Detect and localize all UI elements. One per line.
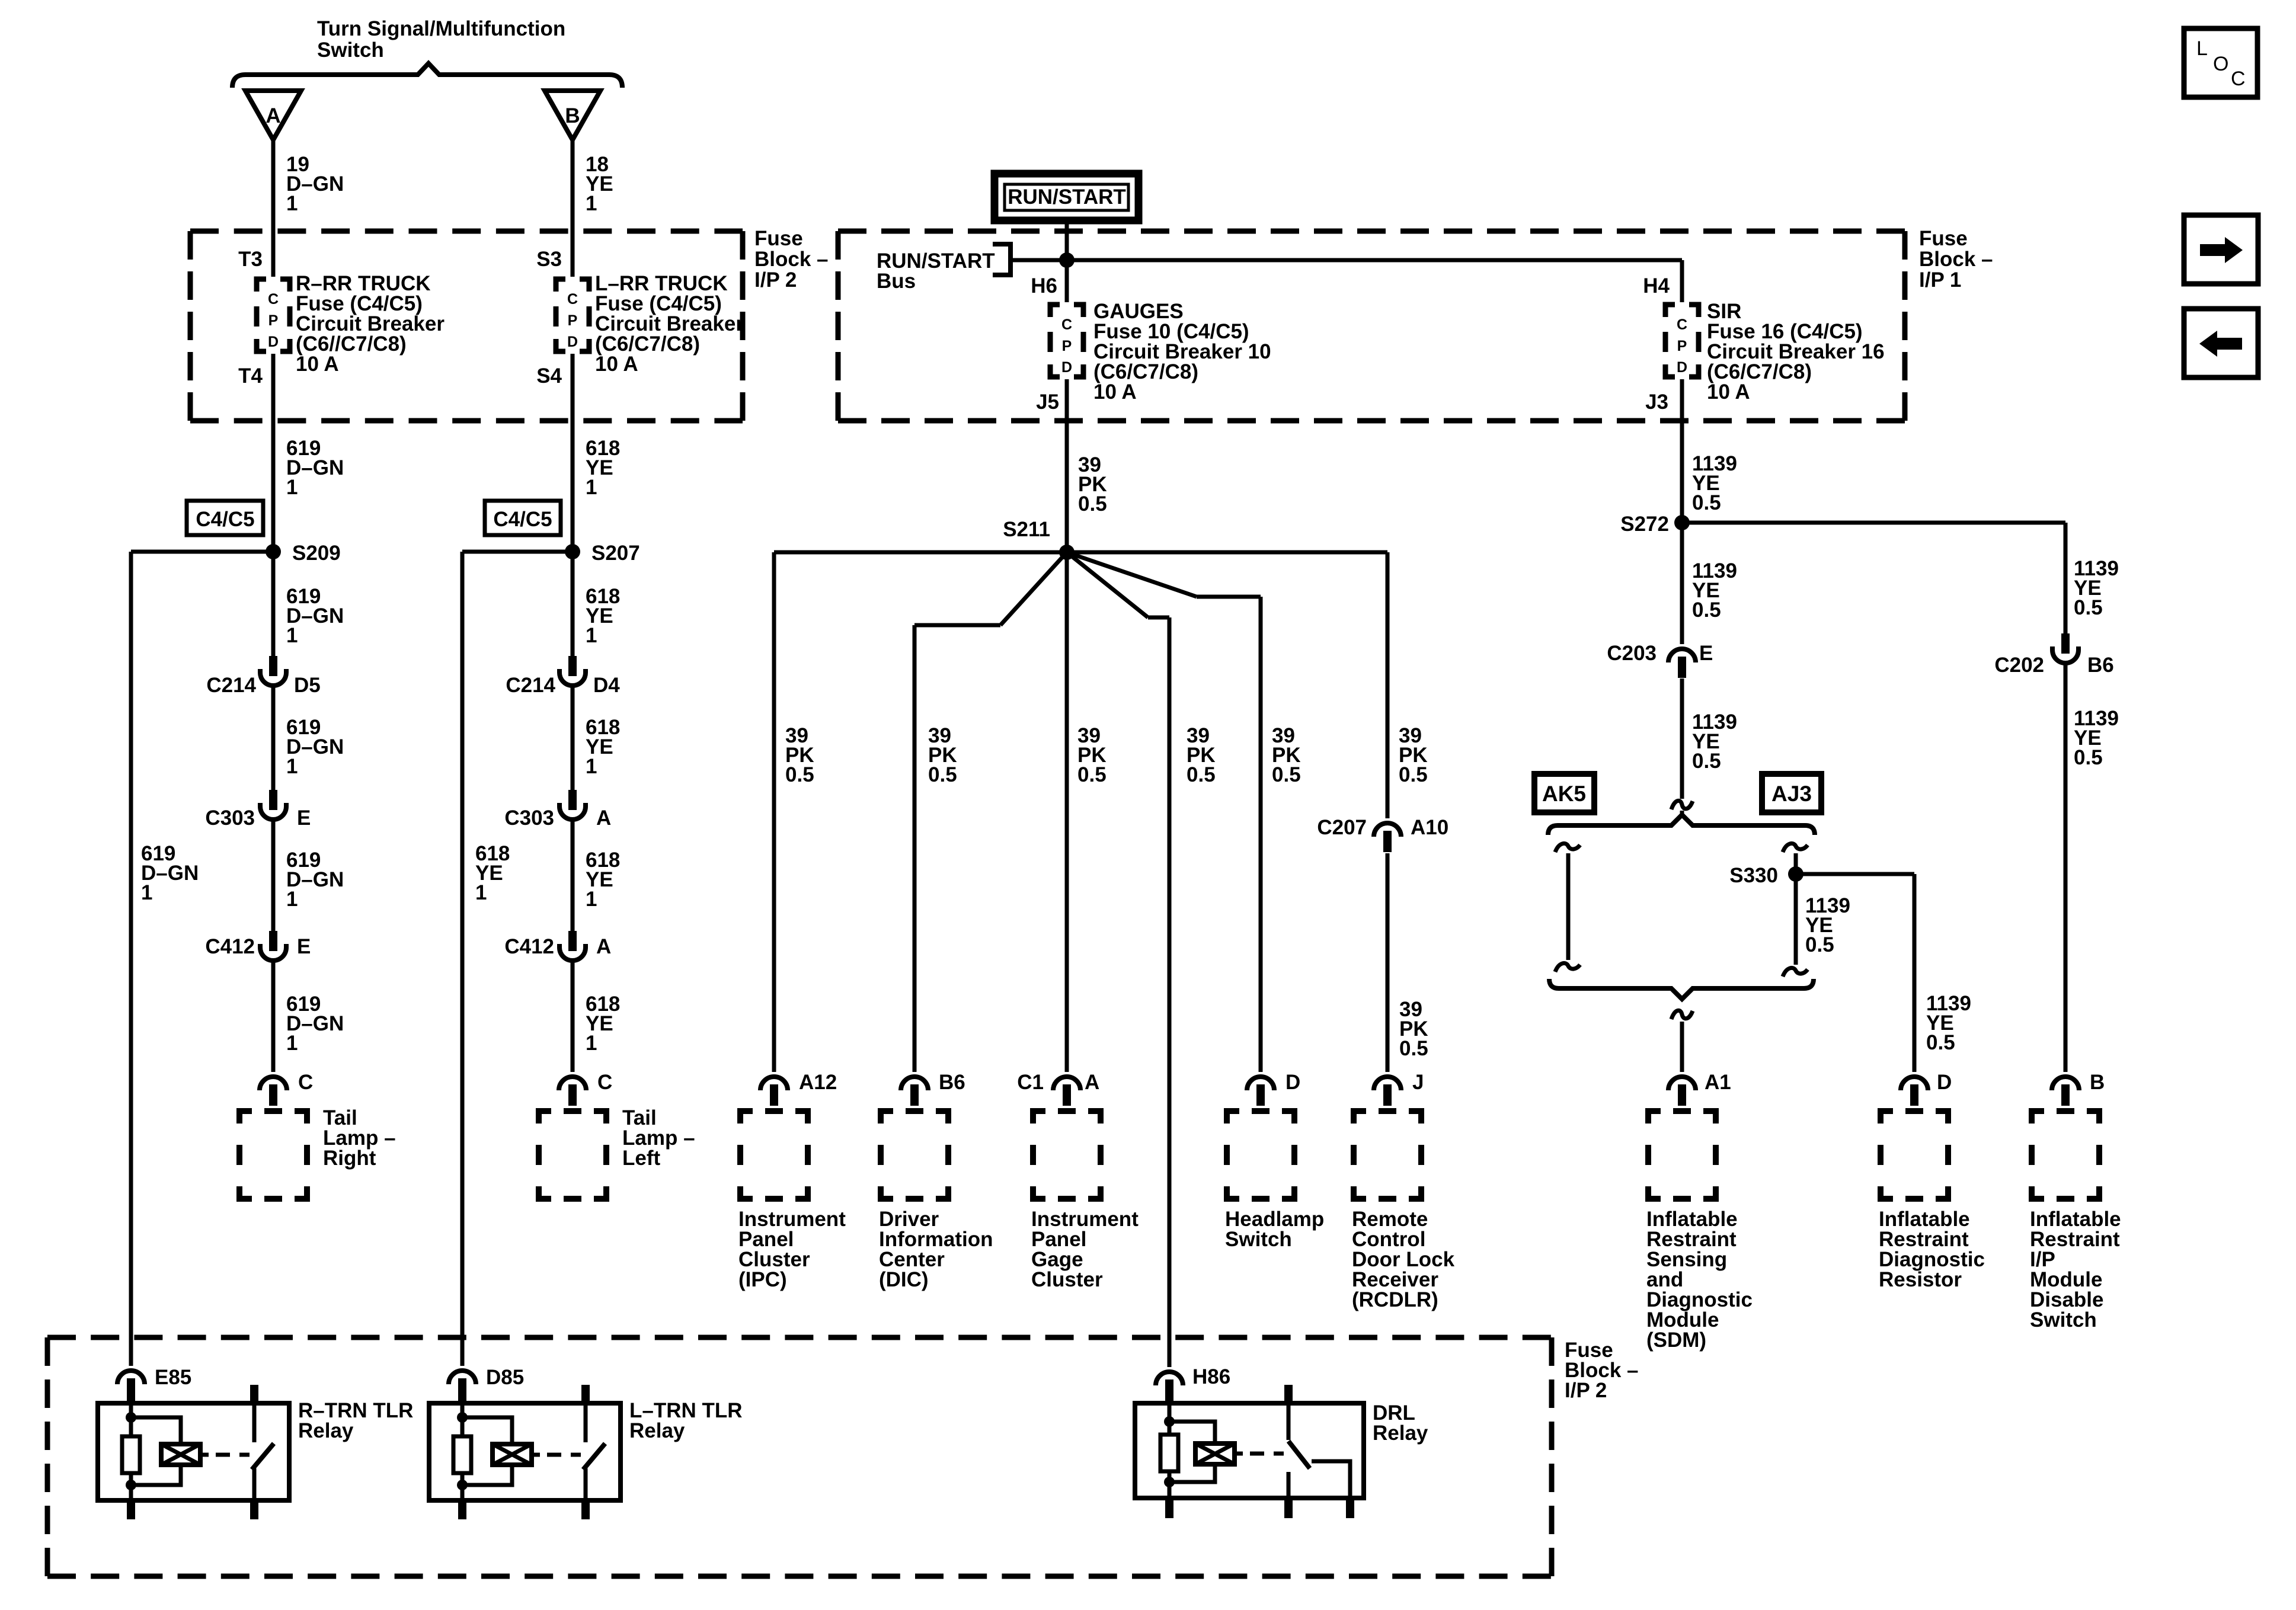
svg-text:J3: J3: [1645, 391, 1668, 414]
brace turn signal switch: [232, 63, 622, 88]
svg-text:S3: S3: [536, 248, 562, 271]
component Inflatable Restraint Diagnostic Resistor: [1881, 1111, 1948, 1199]
wire label 1139 YE 0.5: [1692, 452, 1737, 514]
label Inflatable Restraint I/P Module Disable Switch: [2030, 1208, 2121, 1331]
wire rail right: [1794, 853, 1798, 965]
wire circuit 39 J5 to S211: [1065, 379, 1069, 552]
svg-text:C303: C303: [205, 806, 255, 830]
svg-text:Fuse: Fuse: [1919, 227, 1968, 250]
connector pin A1 SDM: [1668, 1077, 1696, 1106]
wire 39 to C207: [1386, 552, 1390, 818]
wire label 619 D-GN 1: [286, 716, 344, 778]
svg-text:C: C: [2231, 68, 2246, 90]
wire S211 diagonal to DIC: [1000, 552, 1067, 625]
wire label 39 PK 0.5: [785, 724, 814, 786]
svg-text:0.5: 0.5: [1399, 763, 1428, 786]
svg-text:C207: C207: [1317, 816, 1367, 839]
connector pin J RCDLR: [1374, 1077, 1401, 1106]
wire S207 branch horizontal: [462, 550, 573, 554]
connector pin D85: [449, 1371, 476, 1400]
svg-text:J5: J5: [1036, 391, 1059, 414]
shield hook left top: [1555, 843, 1580, 852]
svg-text:0.5: 0.5: [1272, 763, 1301, 786]
svg-text:S330: S330: [1729, 864, 1778, 887]
wire S272 to C202 branch: [1682, 521, 2065, 525]
svg-text:10 A: 10 A: [296, 353, 339, 376]
icon arrow right box: [2184, 215, 2258, 284]
svg-text:D: D: [1937, 1071, 1952, 1094]
wire 1139 to C202: [2064, 523, 2068, 633]
component Inflatable Restraint Sensing and Diagnostic Module: [1648, 1111, 1716, 1199]
connector triangle A: [245, 91, 301, 140]
svg-text:P: P: [268, 312, 279, 329]
label Tail Lamp - Right: [323, 1106, 396, 1170]
wire RUN/START bus to H4: [1011, 258, 1682, 263]
fuse SIR CPD: [1665, 305, 1699, 377]
connector pin C tail lamp right: [260, 1077, 287, 1106]
wire circuit 18 from triangle B to fuse S3: [571, 140, 575, 277]
svg-text:B: B: [565, 104, 580, 127]
svg-text:Relay: Relay: [298, 1419, 354, 1442]
svg-text:D: D: [567, 334, 578, 350]
svg-text:0.5: 0.5: [2074, 596, 2103, 619]
label L–TRN TLR Relay: [629, 1399, 743, 1442]
svg-text:Bus: Bus: [877, 270, 916, 293]
wire label 19 D-GN 1: [286, 153, 344, 215]
svg-text:S211: S211: [1003, 518, 1050, 541]
connector C303 pin A: [559, 790, 586, 820]
connector pin H86: [1156, 1372, 1183, 1401]
wire DIC branch horizontal: [914, 623, 1000, 628]
svg-text:Switch: Switch: [2030, 1308, 2097, 1331]
svg-text:O: O: [2213, 53, 2228, 75]
svg-text:1: 1: [475, 881, 487, 904]
svg-text:Turn Signal/Multifunction: Turn Signal/Multifunction: [317, 17, 565, 40]
wire headlamp branch horizontal: [1197, 595, 1261, 599]
wire 618 C303 to C412: [571, 821, 575, 932]
connector pin C tail lamp left: [559, 1077, 586, 1106]
bus bracket: [993, 244, 1011, 275]
connector C202 pin B6: [2052, 633, 2078, 663]
wire 618 C214 to C303: [571, 687, 575, 790]
svg-text:1: 1: [286, 1032, 298, 1055]
wire S330 branch to diagnostic resistor: [1796, 872, 1914, 876]
wire hook right bottom: [1783, 968, 1808, 977]
shield rail left: [1566, 853, 1571, 960]
svg-text:1: 1: [286, 476, 298, 499]
wire 1139 C203 to harness: [1680, 678, 1684, 799]
label Turn Signal/Multifunction Switch: [317, 17, 565, 62]
svg-text:AJ3: AJ3: [1771, 782, 1812, 806]
label box C4/C5 right: [485, 501, 561, 535]
svg-text:D85: D85: [486, 1366, 524, 1389]
svg-text:AK5: AK5: [1542, 782, 1586, 806]
svg-text:C214: C214: [506, 674, 555, 697]
svg-text:C4/C5: C4/C5: [493, 508, 552, 531]
svg-text:I/P 1: I/P 1: [1919, 268, 1961, 292]
wire label 619 D-GN 1: [286, 849, 344, 911]
wire S211 diagonal to DRL relay: [1067, 552, 1148, 617]
svg-text:0.5: 0.5: [1805, 933, 1834, 956]
component Inflatable Restraint I/P Module Disable Switch: [2032, 1111, 2099, 1199]
svg-text:B6: B6: [939, 1071, 965, 1094]
label R-RR TRUCK fuse: [296, 272, 445, 376]
wire 618 S207 to C214: [571, 552, 575, 657]
wire label 18 YE 1: [586, 153, 613, 215]
splice S211: [1059, 545, 1075, 560]
connector pin A12 IPC: [760, 1077, 788, 1106]
svg-text:C214: C214: [206, 674, 256, 697]
wire 619 C303 to C412: [271, 821, 276, 932]
svg-text:0.5: 0.5: [1692, 750, 1721, 773]
fuse block I/P 1 dashed outline: [838, 231, 1905, 421]
wire label 1139 YE 0.5: [1692, 559, 1737, 622]
label Tail Lamp - Left: [622, 1106, 695, 1170]
svg-text:1: 1: [586, 1032, 597, 1055]
wire circuit 19 from triangle A to fuse T3: [271, 140, 276, 277]
icon LOC box: [2184, 28, 2257, 97]
svg-text:10 A: 10 A: [1093, 380, 1137, 404]
wire circuit 618 from S4 to S207: [571, 354, 575, 552]
connector C1 pin A gage cluster: [1053, 1077, 1080, 1106]
wire 39 to headlamp switch D: [1259, 597, 1263, 1072]
fuse block I/P 2 dashed outline: [190, 231, 743, 421]
label Driver Information Center (DIC): [879, 1208, 993, 1291]
svg-text:E: E: [1699, 642, 1713, 665]
connector C214 pin D4: [559, 656, 586, 686]
svg-text:P: P: [568, 312, 578, 329]
label SIR fuse: [1707, 300, 1885, 404]
svg-text:C412: C412: [205, 935, 255, 958]
svg-text:1: 1: [286, 624, 298, 647]
svg-text:C: C: [567, 291, 578, 308]
svg-text:H86: H86: [1192, 1365, 1230, 1388]
wire label 39 PK 0.5: [1077, 724, 1107, 786]
svg-text:A: A: [1085, 1071, 1099, 1094]
svg-text:(DIC): (DIC): [879, 1268, 929, 1291]
label Inflatable Restraint Diagnostic Resistor: [1879, 1208, 1985, 1291]
svg-text:C: C: [597, 1071, 612, 1094]
svg-text:Relay: Relay: [1373, 1422, 1428, 1445]
svg-text:C1: C1: [1017, 1071, 1044, 1094]
svg-text:D: D: [1061, 359, 1072, 376]
label Fuse Block - I/P 2 bottom: [1565, 1339, 1639, 1402]
svg-text:Resistor: Resistor: [1879, 1268, 1962, 1291]
svg-text:A10: A10: [1411, 816, 1448, 839]
wire circuit 619 down to relay E85: [129, 552, 133, 1366]
wire label 1139 YE 0.5: [1805, 894, 1850, 956]
svg-text:A: A: [266, 104, 280, 127]
svg-text:P: P: [1062, 338, 1072, 354]
svg-text:C4/C5: C4/C5: [196, 508, 254, 531]
svg-text:C202: C202: [1994, 654, 2044, 677]
relay DRL: [1135, 1383, 1364, 1518]
wire 39 to gage cluster: [1065, 552, 1069, 1072]
svg-text:D: D: [1285, 1071, 1300, 1094]
svg-text:A12: A12: [799, 1071, 837, 1094]
svg-text:Right: Right: [323, 1147, 376, 1170]
label Fuse Block - I/P 2: [754, 227, 829, 292]
component Instrument Panel Cluster: [740, 1111, 808, 1199]
svg-text:L: L: [2196, 37, 2208, 60]
wire label 618 YE 1: [586, 585, 620, 647]
wire label 39 PK 0.5: [1399, 724, 1428, 786]
svg-text:C: C: [268, 291, 279, 308]
svg-text:0.5: 0.5: [785, 763, 814, 786]
svg-text:Switch: Switch: [317, 39, 384, 62]
svg-text:1: 1: [586, 888, 597, 911]
svg-text:C: C: [1677, 316, 1687, 333]
svg-text:I/P 2: I/P 2: [1565, 1379, 1607, 1402]
label SDM: [1646, 1208, 1753, 1352]
svg-text:1: 1: [586, 755, 597, 778]
brace harness bottom: [1549, 979, 1814, 999]
wire into harness brace: [1680, 811, 1684, 817]
relay L-TRN TLR: [429, 1383, 621, 1519]
connector pin B disable switch: [2052, 1077, 2079, 1106]
wire DRL branch horizontal: [1148, 616, 1169, 620]
svg-text:A: A: [596, 806, 611, 830]
connector pin D diagnostic resistor: [1901, 1077, 1928, 1106]
connector C214 pin D5: [260, 656, 286, 686]
svg-text:B: B: [2090, 1071, 2105, 1094]
label Fuse Block - I/P 1: [1919, 227, 1993, 292]
wire 39 C207 to RCDLR J: [1386, 853, 1390, 1072]
wire label 1139 YE 0.5: [1926, 992, 1971, 1054]
wire label 618 YE 1: [586, 437, 620, 499]
connector C203 pin E: [1668, 649, 1696, 678]
wire label 619 D-GN 1: [286, 437, 344, 499]
wire 619 C214 to C303: [271, 687, 276, 790]
connector C303 pin E: [260, 790, 286, 820]
svg-text:Left: Left: [622, 1147, 661, 1170]
fuse R-RR TRUCK CPD: [257, 279, 290, 351]
label Instrument Panel Gage Cluster: [1031, 1208, 1139, 1291]
svg-text:E: E: [297, 806, 311, 830]
component Driver Information Center: [881, 1111, 948, 1199]
svg-text:Block –: Block –: [754, 248, 829, 271]
svg-text:Fuse: Fuse: [754, 227, 803, 250]
splice S207: [565, 544, 580, 559]
wire S211 to IPC branch: [774, 550, 1067, 555]
svg-text:I/P 2: I/P 2: [754, 268, 797, 292]
svg-text:1: 1: [586, 192, 597, 215]
svg-text:C: C: [298, 1071, 313, 1094]
label box AK5: [1534, 774, 1594, 812]
svg-text:10 A: 10 A: [1707, 380, 1750, 404]
node RUN/START power feed box: [994, 174, 1139, 220]
wire label 39 PK 0.5: [1078, 453, 1107, 516]
label Headlamp Switch: [1225, 1208, 1324, 1251]
svg-text:Cluster: Cluster: [1031, 1268, 1103, 1291]
wire label 619 D-GN 1: [286, 585, 344, 647]
wire 1139 to resistor D: [1913, 874, 1917, 1072]
label DRL Relay: [1373, 1401, 1428, 1445]
wire label 619 D-GN 1: [286, 993, 344, 1055]
svg-text:T3: T3: [238, 248, 263, 271]
connector C412 pin A: [559, 931, 586, 961]
wire break symbol: [1671, 1010, 1693, 1019]
wire 1139 harness to SDM A1: [1680, 1022, 1684, 1072]
wire label 39 PK 0.5: [1399, 998, 1428, 1060]
svg-text:C203: C203: [1607, 642, 1657, 665]
svg-text:B6: B6: [2087, 654, 2114, 677]
connector C412 pin E: [260, 931, 286, 961]
svg-text:1: 1: [141, 881, 152, 904]
svg-text:D4: D4: [593, 674, 620, 697]
label Instrument Panel Cluster (IPC): [738, 1208, 846, 1291]
component Remote Control Door Lock Receiver: [1354, 1111, 1421, 1199]
label box C4/C5 left: [187, 501, 263, 535]
label box AJ3: [1762, 774, 1821, 812]
splice S330: [1788, 866, 1803, 882]
wire 619 S209 to C214: [271, 552, 276, 657]
svg-text:1: 1: [286, 755, 298, 778]
shield hook left bottom: [1555, 963, 1580, 972]
svg-text:S272: S272: [1620, 513, 1669, 536]
wire S211 diagonal to headlamp switch: [1067, 552, 1197, 597]
wire 39 to IPC A12: [772, 552, 776, 1072]
brace harness top: [1548, 815, 1815, 835]
wire label 39 PK 0.5: [1187, 724, 1216, 786]
svg-text:0.5: 0.5: [1692, 491, 1721, 514]
svg-text:(SDM): (SDM): [1646, 1329, 1706, 1352]
shield hook right top: [1783, 843, 1808, 852]
wire label 619 D-GN 1 branch: [141, 842, 199, 904]
svg-text:E85: E85: [155, 1366, 191, 1389]
wire S209 branch horizontal: [131, 550, 273, 554]
svg-text:Block –: Block –: [1919, 248, 1993, 271]
wire 1139 S272 to C203: [1680, 523, 1684, 644]
svg-text:C303: C303: [504, 806, 554, 830]
wire 618 C412 to tail lamp left: [571, 962, 575, 1072]
splice S272: [1674, 515, 1690, 530]
svg-text:J: J: [1412, 1071, 1424, 1094]
svg-text:1: 1: [586, 624, 597, 647]
wire label 39 PK 0.5: [1272, 724, 1301, 786]
wire label 39 PK 0.5: [928, 724, 957, 786]
svg-text:0.5: 0.5: [1692, 598, 1721, 622]
label L-RR TRUCK fuse: [595, 272, 744, 376]
svg-text:H6: H6: [1031, 274, 1057, 297]
splice S209: [266, 544, 281, 559]
connector C207 pin A10: [1374, 823, 1401, 852]
svg-text:T4: T4: [238, 364, 263, 388]
component Tail Lamp - Right: [239, 1111, 307, 1199]
component Instrument Panel Gage Cluster: [1033, 1111, 1101, 1199]
wire 39 to DIC B6: [913, 625, 917, 1072]
component Headlamp Switch: [1227, 1111, 1294, 1199]
wire label 618 YE 1: [586, 716, 620, 778]
label RCDLR: [1352, 1208, 1455, 1311]
svg-text:(RCDLR): (RCDLR): [1352, 1288, 1438, 1311]
svg-text:D: D: [268, 334, 279, 350]
svg-text:1: 1: [286, 192, 298, 215]
svg-text:0.5: 0.5: [1187, 763, 1216, 786]
wire label 618 YE 1: [586, 849, 620, 911]
wire break symbol: [1671, 801, 1693, 809]
svg-text:D5: D5: [294, 674, 321, 697]
wire 619 C412 to tail lamp right: [271, 962, 276, 1072]
relay R-TRN TLR: [98, 1383, 289, 1519]
connector pin B6 DIC: [901, 1077, 928, 1106]
connector pin E85: [117, 1371, 145, 1400]
svg-text:A: A: [596, 935, 611, 958]
svg-text:S4: S4: [536, 364, 562, 388]
label GAUGES fuse: [1093, 300, 1271, 404]
wire S211 to RCDLR branch: [1067, 550, 1387, 555]
wire circuit 1139 J3 to S272: [1680, 379, 1684, 523]
svg-text:C412: C412: [504, 935, 554, 958]
label R–TRN TLR Relay: [298, 1399, 413, 1442]
svg-text:A1: A1: [1705, 1071, 1731, 1094]
connector triangle B: [545, 91, 600, 140]
wire circuit 619 from T4 to S209: [271, 354, 276, 552]
wire 39 to DRL relay H86: [1168, 617, 1172, 1367]
connector pin D headlamp switch: [1247, 1077, 1274, 1106]
wire label 1139 YE 0.5: [2074, 557, 2119, 619]
svg-text:0.5: 0.5: [1077, 763, 1107, 786]
wire label 1139 YE 0.5: [1692, 710, 1737, 773]
label RUN/START Bus: [877, 249, 995, 293]
wire label 1139 YE 0.5: [2074, 707, 2119, 769]
wire bus to SIR fuse H4: [1680, 260, 1684, 302]
svg-text:Relay: Relay: [629, 1419, 685, 1442]
junction RUN/START bus: [1059, 252, 1075, 268]
component Tail Lamp - Left: [539, 1111, 606, 1199]
svg-text:C: C: [1061, 316, 1072, 333]
fuse L-RR TRUCK CPD: [556, 279, 589, 351]
wire RUN/START to GAUGES fuse H6: [1065, 220, 1069, 302]
fuse block I/P 2 bottom dashed outline: [47, 1337, 1552, 1576]
svg-text:0.5: 0.5: [1078, 492, 1107, 516]
wire circuit 618 down to relay D85: [461, 552, 465, 1366]
svg-text:H4: H4: [1643, 274, 1670, 297]
svg-text:E: E: [297, 935, 311, 958]
fuse GAUGES CPD: [1050, 305, 1083, 377]
svg-text:Switch: Switch: [1225, 1228, 1292, 1251]
svg-text:0.5: 0.5: [928, 763, 957, 786]
svg-text:0.5: 0.5: [2074, 746, 2103, 769]
svg-text:10 A: 10 A: [595, 353, 638, 376]
svg-text:(IPC): (IPC): [738, 1268, 787, 1291]
svg-text:P: P: [1677, 338, 1687, 354]
svg-text:S207: S207: [591, 542, 640, 565]
svg-text:0.5: 0.5: [1399, 1037, 1428, 1060]
icon arrow left box: [2184, 309, 2258, 377]
svg-text:0.5: 0.5: [1926, 1031, 1955, 1054]
svg-text:1: 1: [586, 476, 597, 499]
svg-text:1: 1: [286, 888, 298, 911]
wire 1139 C202 to disable switch B: [2064, 664, 2068, 1072]
wire label 618 YE 1: [586, 993, 620, 1055]
svg-text:D: D: [1677, 359, 1687, 376]
svg-text:RUN/START: RUN/START: [1008, 185, 1126, 209]
svg-text:S209: S209: [292, 542, 341, 565]
wire label 618 YE 1 branch: [475, 842, 510, 904]
